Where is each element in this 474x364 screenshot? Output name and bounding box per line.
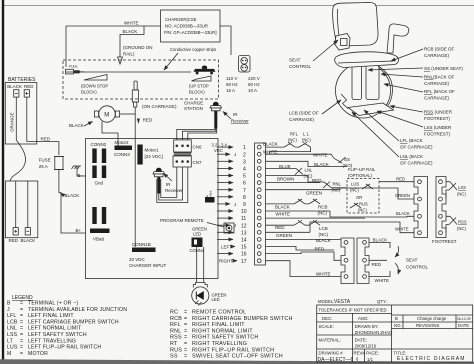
svg-text:LEFT CARRIAGE BUMPER SWITCH: LEFT CARRIAGE BUMPER SWITCH — [28, 319, 119, 325]
svg-text:=: = — [20, 319, 23, 325]
svg-text:DRAWING #: DRAWING # — [319, 351, 344, 356]
svg-text:SS (UNDER SEAT): SS (UNDER SEAT) — [424, 66, 463, 71]
svg-text:11: 11 — [241, 216, 246, 222]
svg-text:J: J — [234, 223, 236, 228]
svg-text:DA—ELECT—6: DA—ELECT—6 — [318, 357, 354, 363]
svg-text:2009/12/16: 2009/12/16 — [355, 344, 377, 349]
svg-text:=: = — [184, 354, 187, 360]
svg-text:WHITE: WHITE — [395, 227, 409, 232]
svg-text:=: = — [20, 326, 23, 332]
svg-text:BLACK: BLACK — [373, 238, 388, 243]
svg-text:FLIP–UP RAIL: FLIP–UP RAIL — [348, 167, 376, 172]
svg-text:LEFT FLIP–UP RAIL SWITCH: LEFT FLIP–UP RAIL SWITCH — [28, 345, 101, 351]
svg-text:(NC): (NC) — [319, 232, 329, 237]
svg-text:ZHONGNAN ZHAO: ZHONGNAN ZHAO — [355, 330, 393, 335]
svg-text:17: 17 — [241, 259, 247, 265]
svg-text:QTY.:: QTY.: — [377, 299, 388, 304]
svg-text:16: 16 — [241, 252, 247, 258]
svg-text:SEAT: SEAT — [406, 258, 418, 263]
svg-text:=: = — [184, 322, 187, 328]
svg-text:RFL: RFL — [170, 322, 181, 328]
svg-text:TOLERANCES IF NOT SPECIFIED: TOLERANCES IF NOT SPECIFIED — [319, 308, 387, 313]
svg-text:Receiver: Receiver — [231, 119, 249, 124]
svg-text:Gnd: Gnd — [95, 181, 104, 186]
svg-text:TERMINAL (+ OR −): TERMINAL (+ OR −) — [28, 301, 78, 307]
svg-text:RCB (SIDE OF: RCB (SIDE OF — [424, 47, 455, 52]
svg-text:50 Hz: 50 Hz — [248, 82, 261, 87]
svg-text:RNL(BACK OF: RNL(BACK OF — [424, 75, 455, 80]
svg-text:LFL (BACK: LFL (BACK — [400, 138, 423, 143]
svg-text:CONN3: CONN3 — [114, 152, 130, 157]
svg-text:REV#: REV# — [354, 351, 366, 356]
svg-text:BLACK: BLACK — [263, 142, 278, 147]
svg-text:LˈL: LˈL — [303, 132, 310, 137]
svg-text:=: = — [20, 338, 23, 344]
svg-text:BLACK: BLACK — [396, 211, 410, 216]
svg-text:Motor2: Motor2 — [115, 140, 130, 145]
svg-text:GREEN: GREEN — [306, 191, 322, 196]
svg-text:(NC): (NC) — [302, 138, 311, 143]
svg-text:CARRIAGE): CARRIAGE) — [424, 53, 450, 58]
svg-text:P/N: GP=ACD038B—33UR]: P/N: GP=ACD038B—33UR] — [164, 30, 216, 35]
svg-text:5: 5 — [243, 174, 246, 180]
svg-text:LT: LT — [7, 338, 14, 344]
svg-text:06-12-09: 06-12-09 — [457, 317, 471, 321]
svg-text:9: 9 — [243, 202, 246, 208]
svg-text:BLACK: BLACK — [69, 123, 84, 128]
svg-text:RIGHT TRAVELLING: RIGHT TRAVELLING — [192, 341, 247, 347]
svg-text:1: 1 — [243, 145, 246, 151]
svg-text:4: 4 — [243, 167, 246, 173]
svg-text:TITLE:: TITLE: — [394, 351, 407, 356]
svg-text:WHITE: WHITE — [124, 21, 139, 26]
svg-text:RED: RED — [24, 84, 34, 89]
svg-text:RED: RED — [9, 238, 19, 243]
svg-text:CARRIAGE): CARRIAGE) — [289, 117, 315, 122]
svg-text:=: = — [20, 345, 23, 351]
svg-text:LFL: LFL — [7, 313, 16, 319]
svg-text:RED: RED — [315, 247, 325, 252]
svg-text:VBatt: VBatt — [93, 237, 105, 242]
svg-text:OF CARRIAGE): OF CARRIAGE) — [400, 161, 433, 166]
svg-text:33 VDC: 33 VDC — [129, 257, 146, 262]
svg-text:SS: SS — [170, 354, 178, 360]
svg-text:J: J — [234, 202, 236, 207]
svg-text:DATE:: DATE: — [355, 338, 367, 343]
svg-text:LCB: LCB — [7, 319, 18, 325]
svg-text:LCB (SIDE OF: LCB (SIDE OF — [289, 111, 319, 116]
svg-text:BATTERIES: BATTERIES — [8, 77, 36, 83]
svg-text:J: J — [7, 307, 10, 313]
svg-text:CN6: CN6 — [193, 145, 202, 150]
svg-text:=: = — [184, 310, 187, 316]
svg-text:RCB: RCB — [318, 205, 328, 210]
svg-text:DRAWN BY:: DRAWN BY: — [355, 324, 379, 329]
svg-text:3: 3 — [243, 159, 246, 165]
svg-text:CONTROL: CONTROL — [289, 64, 311, 69]
svg-text:SWIVEL SEAT CUT–OFF SWITCH: SWIVEL SEAT CUT–OFF SWITCH — [192, 354, 283, 360]
svg-text:REVISIONS: REVISIONS — [416, 323, 440, 328]
svg-text:10 A: 10 A — [248, 88, 257, 93]
svg-text:LED: LED — [193, 232, 201, 237]
svg-text:SS: SS — [344, 157, 350, 162]
svg-text:LNL: LNL — [305, 168, 313, 173]
svg-text:J: J — [234, 152, 236, 157]
svg-text:Motor1: Motor1 — [145, 148, 160, 153]
svg-text:RED: RED — [275, 225, 285, 230]
svg-text:25 A: 25 A — [39, 164, 48, 169]
svg-text:(GROUND ON: (GROUND ON — [123, 45, 153, 50]
svg-text:RIGHT CARRIAGE BUMPER SWITCH: RIGHT CARRIAGE BUMPER SWITCH — [192, 316, 293, 322]
svg-text:PROGRAM REMOTE: PROGRAM REMOTE — [160, 218, 204, 223]
svg-text:=: = — [184, 347, 187, 353]
svg-text:RSS: RSS — [170, 335, 182, 341]
svg-text:NO.: NO. — [394, 323, 402, 328]
svg-text:14: 14 — [241, 238, 247, 244]
svg-text:VESTA: VESTA — [334, 299, 351, 305]
svg-text:RED: RED — [143, 118, 153, 123]
svg-text:60 Hz: 60 Hz — [226, 82, 239, 87]
svg-text:WHITE: WHITE — [313, 153, 328, 158]
svg-text:BLACK: BLACK — [314, 162, 329, 167]
svg-text:LEFT FINAL LIMIT: LEFT FINAL LIMIT — [28, 313, 74, 319]
svg-text:GREEN: GREEN — [395, 193, 410, 198]
svg-text:6: 6 — [243, 181, 246, 187]
svg-text:220 V: 220 V — [248, 76, 260, 81]
svg-text:WHITE: WHITE — [263, 150, 278, 155]
svg-text:FOOTREST: FOOTREST — [432, 239, 457, 244]
svg-text:BLACK: BLACK — [65, 193, 80, 198]
svg-text:BLACK: BLACK — [21, 238, 36, 243]
svg-text:RAIL): RAIL) — [123, 52, 135, 57]
svg-text:ANG:: ANG: — [358, 316, 369, 321]
svg-text:RED: RED — [312, 178, 322, 183]
svg-text:(DOWN STOP: (DOWN STOP — [81, 84, 108, 89]
svg-text:=: = — [20, 301, 23, 307]
svg-text:=: = — [20, 332, 23, 338]
svg-text:15 A: 15 A — [226, 88, 235, 93]
svg-text:WHITE: WHITE — [375, 278, 390, 283]
svg-text:13: 13 — [241, 230, 247, 236]
svg-text:LEFT: LEFT — [221, 244, 232, 249]
svg-text:12: 12 — [241, 223, 247, 229]
svg-text:FULE: FULE — [69, 65, 78, 69]
svg-text:CONTROL: CONTROL — [406, 265, 428, 270]
svg-text:RUS: RUS — [170, 347, 182, 353]
svg-text:VDC: VDC — [214, 148, 223, 153]
svg-text:RED: RED — [396, 177, 405, 182]
svg-text:RCB: RCB — [170, 316, 182, 322]
svg-text:LSS: LSS — [458, 185, 466, 190]
svg-text:FOOTREST): FOOTREST) — [424, 116, 450, 121]
svg-text:OF CARRIAGE): OF CARRIAGE) — [400, 145, 433, 150]
svg-text:SEAT: SEAT — [289, 58, 301, 63]
svg-text:LEFT NORMAL LIMIT: LEFT NORMAL LIMIT — [28, 326, 82, 332]
svg-text:RED: RED — [41, 137, 51, 142]
svg-text:PAGE:: PAGE: — [366, 351, 379, 356]
svg-text:Conductive copper strips: Conductive copper strips — [170, 47, 216, 52]
svg-text:(NC): (NC) — [457, 192, 466, 197]
svg-text:CN7: CN7 — [193, 160, 202, 165]
svg-text:CARRIAGE): CARRIAGE) — [424, 81, 450, 86]
svg-text:B+: B+ — [76, 228, 82, 233]
svg-text:LEFT SAFETY SWITCH: LEFT SAFETY SWITCH — [28, 332, 87, 338]
svg-text:BLACK: BLACK — [123, 29, 138, 34]
svg-text:BROWN: BROWN — [277, 176, 294, 181]
svg-text:=: = — [184, 316, 187, 322]
svg-text:RIGHT FINAL LIMIT: RIGHT FINAL LIMIT — [192, 322, 245, 328]
svg-text:TERMINAL AVAILABLE FOR JUNCTIO: TERMINAL AVAILABLE FOR JUNCTION — [28, 307, 127, 313]
svg-text:STATION: STATION — [184, 106, 203, 111]
svg-text:MOTOR: MOTOR — [28, 351, 48, 357]
svg-text:FUSE: FUSE — [39, 158, 51, 163]
svg-text:RT: RT — [170, 341, 178, 347]
svg-text:BLUE: BLUE — [279, 164, 291, 169]
svg-text:=: = — [20, 351, 23, 357]
svg-text:BLACK: BLACK — [7, 84, 22, 89]
svg-text:=: = — [184, 328, 187, 334]
svg-text:LCB: LCB — [319, 226, 328, 231]
svg-text:10: 10 — [241, 209, 247, 215]
svg-text:RIGHT: RIGHT — [219, 259, 233, 264]
svg-text:RED: RED — [372, 262, 382, 267]
svg-text:CHARGE: CHARGE — [184, 101, 203, 106]
svg-text:RUS: RUS — [359, 202, 368, 207]
svg-text:BLACK: BLACK — [316, 238, 331, 243]
svg-text:=: = — [184, 335, 187, 341]
svg-text:SCALE:: SCALE: — [319, 324, 334, 329]
svg-text:GREEN: GREEN — [276, 233, 292, 238]
svg-text:[24 VDC]: [24 VDC] — [145, 154, 163, 159]
svg-text:LNL (BACK: LNL (BACK — [400, 154, 423, 159]
svg-text:LUS: LUS — [351, 182, 359, 187]
svg-text:LNL: LNL — [7, 326, 17, 332]
svg-text:RNL: RNL — [333, 181, 342, 186]
svg-text:7: 7 — [243, 188, 246, 194]
svg-text:(NC): (NC) — [288, 138, 297, 143]
svg-text:CONN4: CONN4 — [190, 248, 205, 253]
svg-text:FOOTREST): FOOTREST) — [424, 132, 450, 137]
svg-text:M: M — [7, 351, 11, 357]
svg-text:LSS: LSS — [7, 332, 18, 338]
svg-text:=: = — [184, 341, 187, 347]
svg-text:DEC:: DEC: — [322, 316, 332, 321]
svg-text:BLACK: BLACK — [275, 204, 290, 209]
svg-text:WHITE: WHITE — [276, 211, 291, 216]
svg-text:RSS (UNDER: RSS (UNDER — [424, 110, 453, 115]
svg-text:REMOTE CONTROL: REMOTE CONTROL — [192, 310, 246, 316]
svg-text:B: B — [395, 316, 398, 321]
svg-text:110 V: 110 V — [226, 76, 237, 81]
svg-text:(UP STOP: (UP STOP — [189, 84, 209, 89]
svg-text:CHARGER|CSE: CHARGER|CSE — [165, 17, 197, 22]
svg-text:2: 2 — [243, 152, 246, 158]
svg-text:ELECTRIC DIAGRAM: ELECTRIC DIAGRAM — [397, 356, 466, 362]
svg-text:RNL: RNL — [170, 328, 182, 334]
svg-text:B−: B− — [78, 173, 84, 178]
svg-text:RSS: RSS — [458, 220, 467, 225]
svg-text:RFL: RFL — [290, 132, 299, 137]
svg-text:MODEL:: MODEL: — [318, 299, 334, 304]
svg-text:MATERIAL:: MATERIAL: — [319, 338, 341, 343]
svg-text:ORANGE: ORANGE — [10, 112, 15, 132]
svg-text:BLOCK): BLOCK) — [81, 90, 97, 95]
svg-text:IR: IR — [166, 182, 171, 187]
svg-text:IR: IR — [233, 112, 238, 117]
svg-text:BLOCK): BLOCK) — [189, 90, 205, 95]
svg-text:M: M — [104, 113, 109, 119]
svg-text:LED: LED — [212, 297, 220, 302]
svg-text:CARRIAGE): CARRIAGE) — [424, 96, 450, 101]
svg-text:Receiver: Receiver — [165, 188, 183, 193]
svg-text:=: = — [20, 307, 23, 313]
svg-text:LEFT TRAVELLING: LEFT TRAVELLING — [28, 338, 76, 344]
svg-text:1/1: 1/1 — [367, 357, 374, 362]
svg-text:LUS: LUS — [7, 345, 18, 351]
svg-text:B: B — [7, 301, 11, 307]
svg-text:CHARGER INPUT: CHARGER INPUT — [129, 263, 167, 268]
svg-text:RIGHT FLIP–UP RAIL SWITCH: RIGHT FLIP–UP RAIL SWITCH — [192, 347, 274, 353]
svg-text:Change charge: Change charge — [417, 316, 447, 321]
svg-text:RIGHT NORMAL LIMIT: RIGHT NORMAL LIMIT — [192, 328, 253, 334]
svg-text:(ON CARRIAGE): (ON CARRIAGE) — [142, 104, 177, 109]
svg-text:CONN1B: CONN1B — [132, 242, 151, 247]
svg-text:NO: ACD038B—33UR: NO: ACD038B—33UR — [165, 24, 208, 29]
svg-text:(NC): (NC) — [457, 226, 466, 231]
svg-text:RFL (BACK OF: RFL (BACK OF — [424, 89, 455, 94]
svg-text:(NC): (NC) — [358, 208, 367, 213]
svg-text:(OPTIONAL): (OPTIONAL) — [348, 173, 373, 178]
svg-text:OR: OR — [356, 195, 362, 200]
svg-text:RC: RC — [170, 310, 178, 316]
svg-text:15: 15 — [241, 245, 247, 251]
svg-text:8: 8 — [243, 195, 246, 201]
svg-text:LSS (UNDER: LSS (UNDER — [424, 125, 452, 130]
svg-text:=: = — [20, 313, 23, 319]
svg-text:CONN2: CONN2 — [91, 142, 107, 147]
svg-text:RIGHT SAFETY SWITCH: RIGHT SAFETY SWITCH — [192, 335, 259, 341]
svg-text:DATE: DATE — [458, 323, 469, 328]
svg-text:WHITE: WHITE — [316, 271, 331, 276]
